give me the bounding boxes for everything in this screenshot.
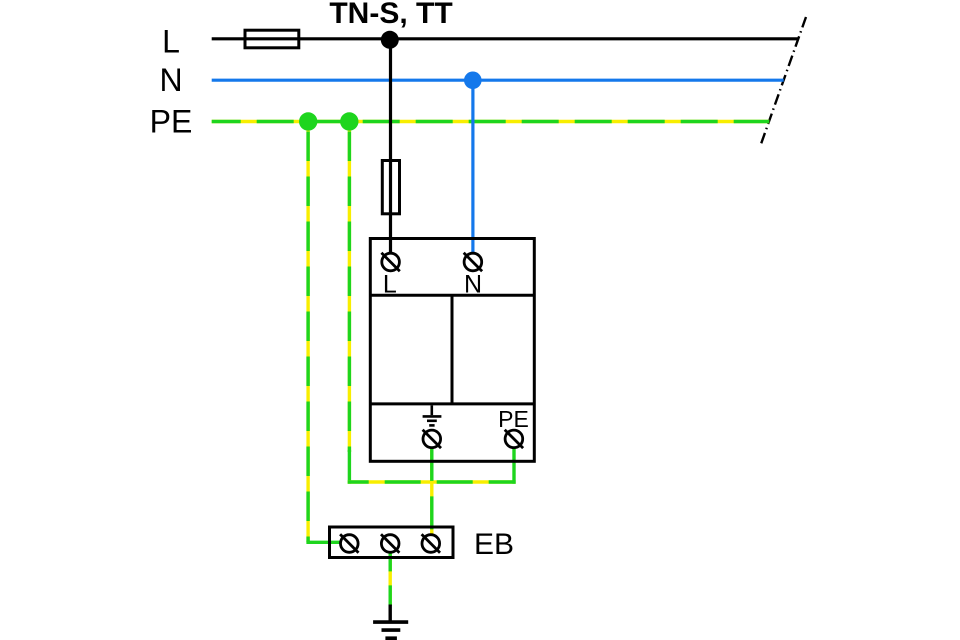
svg-text:PE: PE (150, 104, 193, 140)
svg-text:L: L (383, 270, 397, 298)
svg-text:L: L (162, 24, 180, 60)
svg-text:TN-S, TT: TN-S, TT (329, 0, 452, 30)
svg-text:N: N (464, 270, 482, 298)
svg-text:N: N (159, 62, 182, 98)
svg-text:EB: EB (474, 528, 514, 561)
svg-text:PE: PE (498, 406, 529, 432)
